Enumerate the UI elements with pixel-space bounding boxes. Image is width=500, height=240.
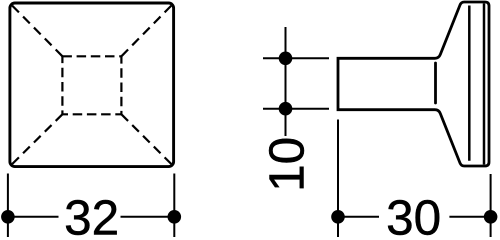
svg-text:30: 30: [386, 191, 441, 237]
front view: hidden edge diagonal bottom-right: [121, 114, 171, 164]
front view: hidden edge diagonal top-left: [12, 6, 62, 57]
dimension 10: bottom terminator dot: [279, 102, 293, 116]
dimension 32: right extension line: [173, 174, 175, 239]
front view: hidden edge diagonal bottom-left: [12, 114, 62, 164]
front view: outer square outline of knob: [10, 3, 174, 167]
dimension 30: dimension line right segment: [449, 216, 490, 218]
dimension 32: dimension line right segment: [121, 216, 175, 218]
dimension 30: dimension line left segment: [338, 216, 379, 218]
svg-text:32: 32: [64, 191, 119, 237]
dimension 10: top terminator dot: [279, 52, 293, 66]
dimension 32: dimension line left segment: [8, 216, 59, 218]
side view: front face double line: [483, 4, 486, 165]
front view: hidden edge diagonal top-right: [121, 6, 171, 57]
side view: face chamfer edge line: [468, 6, 471, 161]
side view: knob outline (stem and flared head): [338, 2, 489, 166]
dimension 30: right extension line: [490, 174, 492, 238]
svg-text:10: 10: [260, 137, 315, 192]
dimension 10: bottom extension line: [263, 108, 329, 110]
side view: flare base edge (neck line): [434, 63, 437, 103]
dimension 32: right terminator dot: [168, 210, 182, 224]
dimension 30: left extension line: [337, 120, 339, 239]
dimension 32: left terminator dot: [1, 210, 15, 224]
dimension 10: vertical dimension line: [285, 27, 287, 136]
front view: inner hidden square (grip face): [62, 56, 121, 114]
dimension 30: left terminator dot: [331, 210, 345, 224]
dimension 10: top extension line: [263, 57, 329, 59]
dimension 32: left extension line: [7, 174, 9, 239]
dimension 30: right terminator dot: [484, 210, 498, 224]
